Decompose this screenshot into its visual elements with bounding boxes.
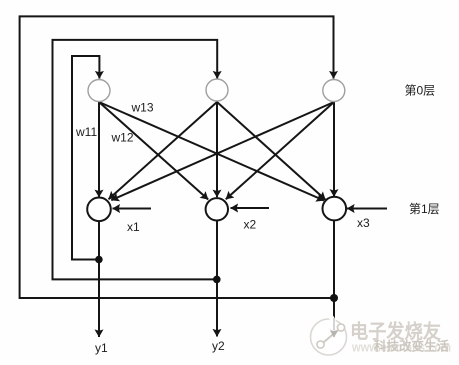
junction dot node3 output	[330, 294, 338, 302]
wire input x3 arrow into layer-1 unit3	[347, 208, 387, 210]
svg-text:第0层: 第0层	[405, 84, 436, 98]
wire output y3 (layer-1 unit3 down through junction dot to arrow)	[333, 221, 335, 338]
wire feedback-loop-3 (outer: node3 output dot, left, top, into layer-0 unit 3)	[20, 16, 334, 298]
wire input x1 arrow into layer-1 unit1	[113, 208, 152, 210]
wire feedback-loop-2 (node2 output dot, left, top, into layer-0 unit 2)	[53, 40, 218, 280]
node layer-1 unit 1 (black circle)	[87, 198, 111, 222]
node layer-0 unit 1 (gray circle)	[88, 80, 110, 102]
svg-text:y1: y1	[95, 341, 108, 355]
svg-text:y2: y2	[212, 339, 225, 353]
junction dot node1 output	[95, 256, 103, 264]
node layer-1 unit 2 (black circle)	[206, 198, 228, 220]
svg-text:w12: w12	[111, 131, 134, 145]
wire input x2 arrow into layer-1 unit2	[231, 207, 270, 209]
watermark logo circle	[311, 316, 347, 355]
wire diagonal: layer-0 unit3 to layer-1 unit1	[111, 102, 334, 200]
node layer-1 unit 3 (black circle)	[323, 197, 347, 221]
node layer-0 unit 3 (gray circle)	[323, 80, 345, 102]
node layer-0 unit 2 (gray circle)	[206, 79, 228, 101]
wire diagonal: layer-0 unit3 to layer-1 unit2	[226, 102, 334, 199]
wire w12 diagonal: layer-0 unit1 to layer-1 unit2	[99, 102, 208, 200]
wire output y2 (layer-1 unit2 down through junction dot to arrow)	[216, 221, 218, 337]
wire w11 vertical: layer-0 unit1 to layer-1 unit1	[98, 102, 100, 198]
svg-text:x3: x3	[357, 216, 370, 230]
wire diagonal: layer-0 unit2 to layer-1 unit3	[217, 102, 326, 200]
wire feedback-loop-1 (node1 output dot, left, top, into layer-0 unit 1)	[72, 56, 99, 260]
wire vertical: layer-0 unit2 to layer-1 unit2	[216, 102, 218, 198]
wire diagonal: layer-0 unit2 to layer-1 unit1	[109, 102, 218, 199]
svg-text:科技改变生活: 科技改变生活	[374, 339, 449, 354]
wire output y1 (layer-1 unit1 down through junction dot to arrow)	[98, 221, 100, 337]
svg-text:第1层: 第1层	[409, 202, 440, 216]
svg-text:x2: x2	[244, 218, 257, 232]
svg-text:x1: x1	[127, 220, 140, 234]
svg-text:w11: w11	[75, 125, 97, 139]
junction dot node2 output	[213, 276, 221, 284]
wire vertical: layer-0 unit3 to layer-1 unit3	[333, 102, 335, 197]
svg-text:w13: w13	[131, 101, 154, 115]
wire w13 diagonal: layer-0 unit1 to layer-1 unit3	[99, 102, 324, 201]
